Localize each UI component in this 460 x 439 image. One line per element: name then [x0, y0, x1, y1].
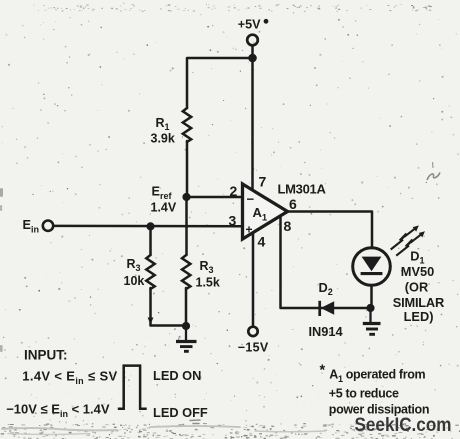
svg-text:8: 8	[284, 218, 292, 234]
svg-text:+: +	[246, 223, 253, 237]
svg-text:3: 3	[229, 213, 237, 229]
svg-text:D1: D1	[410, 249, 424, 266]
svg-text:2: 2	[230, 183, 238, 199]
svg-text:INPUT:: INPUT:	[24, 347, 68, 362]
svg-text:A1: A1	[253, 205, 268, 224]
svg-text:SIMILAR: SIMILAR	[393, 295, 444, 310]
svg-text:A1 operated from: A1 operated from	[329, 368, 425, 385]
svg-text:Eref: Eref	[152, 185, 173, 202]
svg-text:R3: R3	[127, 257, 141, 273]
svg-text:D2: D2	[319, 280, 333, 297]
svg-text:SeekIC.com: SeekIC.com	[355, 415, 452, 436]
svg-text:+5V: +5V	[238, 18, 261, 32]
svg-text:−10V ≤ Ein < 1.4V: −10V ≤ Ein < 1.4V	[6, 401, 110, 419]
svg-text:7: 7	[259, 174, 267, 190]
svg-text:(OR: (OR	[405, 280, 428, 295]
svg-text:6: 6	[289, 196, 297, 212]
svg-text:1.4V < Ein ≤ SV: 1.4V < Ein ≤ SV	[22, 369, 117, 387]
svg-text:LED ON: LED ON	[153, 368, 201, 383]
svg-text:−15V: −15V	[238, 340, 269, 354]
svg-text:LM301A: LM301A	[278, 181, 327, 196]
svg-text:IN914: IN914	[309, 324, 344, 339]
svg-text:R1: R1	[156, 116, 170, 132]
svg-text:10k: 10k	[124, 274, 145, 288]
svg-text:MV50: MV50	[401, 264, 434, 279]
svg-text:LED): LED)	[404, 309, 434, 324]
svg-text:3.9k: 3.9k	[151, 132, 175, 146]
svg-text:1.5k: 1.5k	[196, 276, 220, 290]
svg-text:4: 4	[258, 234, 266, 250]
svg-text:Ein: Ein	[23, 218, 39, 235]
svg-text:+5 to reduce: +5 to reduce	[329, 386, 399, 400]
svg-text:R3: R3	[200, 259, 214, 275]
svg-text:LED OFF: LED OFF	[153, 405, 208, 420]
svg-text:*: *	[320, 363, 326, 379]
svg-text:1.4V: 1.4V	[151, 201, 177, 215]
